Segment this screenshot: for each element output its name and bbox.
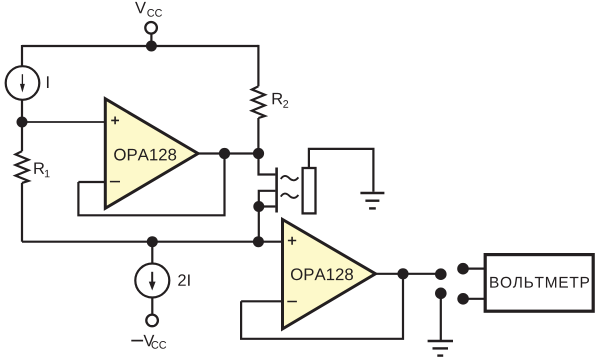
label R2 xyxy=(273,93,289,108)
node DUT source lead xyxy=(253,201,264,212)
label OPA128 (U2) xyxy=(291,268,353,280)
connector plug dot output side xyxy=(435,268,447,280)
label Vcc xyxy=(135,2,162,17)
wire R1 to bottom bus xyxy=(21,183,23,242)
wire R2 to output node xyxy=(257,118,259,154)
wire bottom bus xyxy=(22,241,283,243)
wire node to DUT top lead xyxy=(259,154,276,175)
wire DUT source to bus xyxy=(258,207,260,242)
label voltmeter xyxy=(490,277,589,288)
current source 2I xyxy=(135,264,169,298)
transistor under test: channel bar xyxy=(275,168,278,213)
wire node A to U1 + input xyxy=(22,121,106,123)
tilde mark upper xyxy=(281,176,299,180)
wire top rail Vcc xyxy=(22,45,258,47)
wire jack to voltmeter - terminal xyxy=(463,298,486,300)
wire rail to R2 xyxy=(257,45,259,86)
op-amp U1 OPA128 xyxy=(105,99,198,209)
wire 2I to -Vcc terminal xyxy=(151,298,153,315)
voltmeter box xyxy=(485,255,593,312)
wire U2 feedback loop xyxy=(241,274,403,339)
node U2 output / feedback xyxy=(397,268,408,279)
label R1 xyxy=(34,163,49,178)
DUT body rectangle xyxy=(303,168,316,213)
node top rail / Vcc xyxy=(146,41,157,52)
ground (voltmeter return) xyxy=(428,341,453,356)
resistor R2 xyxy=(252,86,265,118)
node bus / 2I source xyxy=(147,236,158,247)
-Vcc terminal xyxy=(146,315,158,327)
node U1 output / feedback xyxy=(219,148,230,159)
tilde mark lower xyxy=(281,194,299,198)
wire rail to current source I xyxy=(21,45,23,66)
wire DUT gate+source leads xyxy=(259,191,276,207)
resistor R1 xyxy=(16,151,29,183)
wire U1 - input stub xyxy=(78,181,105,183)
label 2I xyxy=(178,274,189,286)
node U1 output / R2 / DUT xyxy=(253,148,264,159)
ground (DUT return) xyxy=(360,193,384,208)
current source I xyxy=(6,66,40,100)
wire bus to 2I source xyxy=(151,242,153,264)
node A (R1 top, U1 + input) xyxy=(17,117,28,128)
wire U1 feedback loop xyxy=(78,154,224,216)
wire DUT body to ground xyxy=(309,149,374,192)
wire current source to node A xyxy=(21,100,23,122)
wire U2 - input stub xyxy=(241,300,283,302)
label I xyxy=(47,76,49,88)
Vcc terminal xyxy=(145,22,157,46)
wire U2 output xyxy=(374,273,441,275)
label OPA128 (U1) xyxy=(114,149,176,161)
wire plug to ground (voltmeter) xyxy=(440,293,442,341)
connector jack dot voltmeter - xyxy=(457,293,469,305)
wire U1 output xyxy=(196,152,259,154)
connector jack dot voltmeter + xyxy=(457,263,469,275)
wire jack to voltmeter + terminal xyxy=(463,268,486,270)
wire node A to R1 xyxy=(21,122,23,151)
op-amp U2 OPA128 xyxy=(283,220,376,329)
node bus / U2 + input xyxy=(253,236,264,247)
label -Vcc xyxy=(131,335,166,349)
connector plug dot ground side xyxy=(435,288,447,300)
